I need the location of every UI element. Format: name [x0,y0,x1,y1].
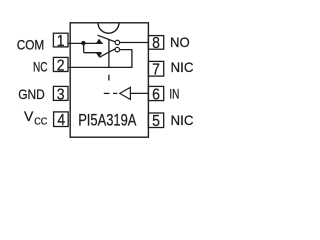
svg-text:5: 5 [152,113,160,130]
svg-text:7: 7 [152,62,160,79]
svg-text:6: 6 [152,86,160,103]
svg-text:V: V [24,108,34,124]
svg-text:NIC: NIC [171,112,194,128]
svg-text:NC: NC [33,58,48,74]
svg-text:1: 1 [57,33,65,50]
svg-text:NIC: NIC [171,59,194,75]
svg-text:NO: NO [170,34,190,50]
svg-text:3: 3 [57,87,65,104]
svg-text:4: 4 [57,112,65,129]
svg-text:PI5A319A: PI5A319A [78,110,137,129]
svg-text:2: 2 [57,57,65,74]
svg-text:8: 8 [152,35,160,52]
svg-text:IN: IN [169,85,179,101]
svg-text:GND: GND [18,86,45,102]
svg-text:COM: COM [17,36,45,52]
svg-text:CC: CC [34,116,48,128]
